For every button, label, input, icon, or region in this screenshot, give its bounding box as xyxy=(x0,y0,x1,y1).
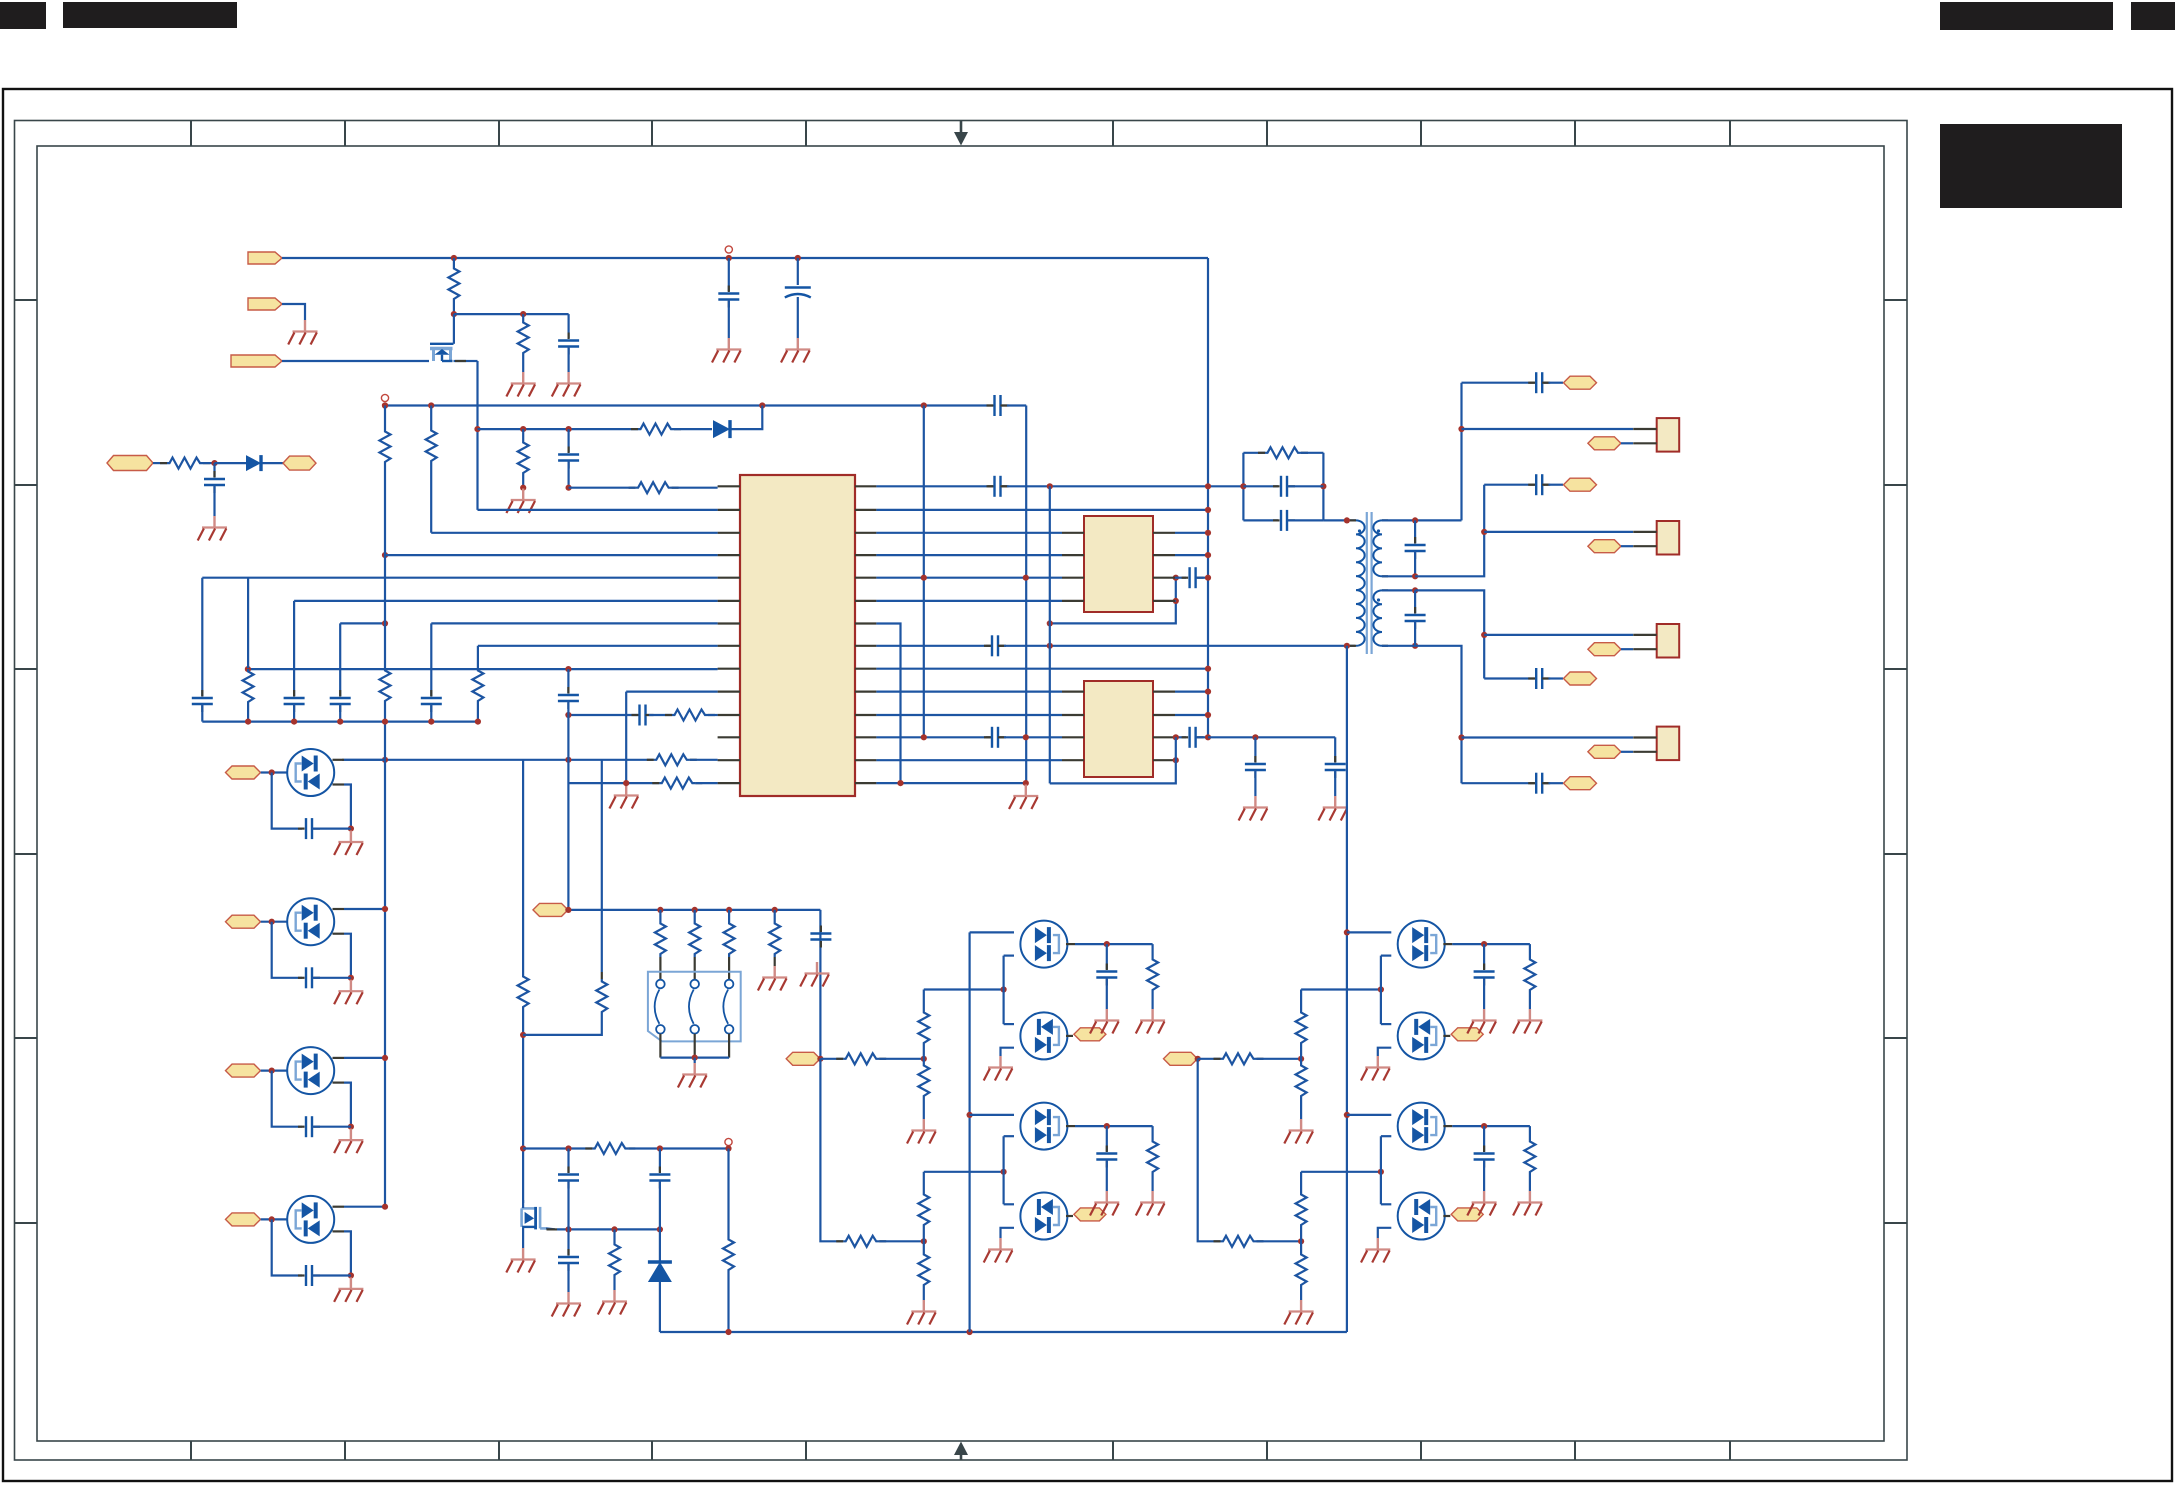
pin xyxy=(986,736,992,738)
pin xyxy=(333,908,345,910)
diode D3 xyxy=(648,1262,672,1282)
junction xyxy=(1298,1238,1304,1244)
frame tick (top) xyxy=(498,121,500,147)
wire xyxy=(1382,589,1415,591)
frame tick (left) xyxy=(15,1037,38,1039)
wire xyxy=(1301,1171,1381,1173)
junction xyxy=(245,666,251,672)
frame tick (top) xyxy=(1729,121,1731,147)
frame tick (bottom) xyxy=(651,1441,653,1460)
junction xyxy=(291,719,297,725)
wire xyxy=(522,314,524,320)
resistor R7 xyxy=(636,482,672,493)
net flag STBY xyxy=(248,298,282,310)
wire xyxy=(1243,519,1278,521)
wire xyxy=(876,577,1062,579)
frame tick (bottom) xyxy=(1266,1441,1268,1460)
pin xyxy=(659,957,661,980)
frame tick (left) xyxy=(15,1222,38,1224)
transistor Q24A xyxy=(1020,921,1067,968)
pin xyxy=(1066,1125,1075,1127)
capacitor C26 xyxy=(1405,545,1426,551)
wire xyxy=(1380,956,1382,1025)
diode D1 xyxy=(246,455,261,471)
resistor R16 xyxy=(596,979,607,1015)
wire xyxy=(523,1015,602,1035)
switch blade xyxy=(723,990,728,1024)
wire xyxy=(1075,1125,1153,1127)
capacitor C4 xyxy=(995,395,1001,416)
wire xyxy=(1175,714,1208,716)
ground xyxy=(984,1238,1013,1263)
transistor Q30C xyxy=(1398,1103,1445,1150)
net flag PWM-A xyxy=(786,1052,820,1065)
resistor R20 xyxy=(769,921,780,957)
pin xyxy=(855,645,876,647)
wire xyxy=(1106,1126,1108,1151)
pin xyxy=(1153,690,1175,692)
wire xyxy=(727,1273,729,1332)
junction xyxy=(451,255,457,261)
wire xyxy=(453,258,455,266)
wire xyxy=(1483,1126,1485,1151)
wire xyxy=(385,554,718,556)
node (open) xyxy=(725,1138,732,1145)
junction xyxy=(1205,530,1211,536)
ground xyxy=(506,372,535,397)
pin xyxy=(1001,404,1008,406)
wire xyxy=(430,464,432,533)
junction xyxy=(565,666,571,672)
wire xyxy=(876,645,986,647)
wire xyxy=(522,1200,524,1208)
wire xyxy=(522,429,524,440)
node (open) xyxy=(725,246,732,253)
wire xyxy=(1462,428,1634,430)
resistor R21 xyxy=(592,1143,628,1154)
pin xyxy=(718,509,740,511)
capacitor C19 xyxy=(992,727,998,748)
pin xyxy=(1153,554,1175,556)
wire xyxy=(567,1181,569,1230)
net flag VIN xyxy=(248,252,282,264)
junction xyxy=(1047,643,1053,649)
wire xyxy=(248,668,718,670)
pin xyxy=(646,714,650,716)
wire xyxy=(1415,646,1461,783)
capacitor C24 xyxy=(1281,476,1287,497)
diode D2 xyxy=(713,420,730,438)
wire xyxy=(1452,1125,1530,1127)
wire xyxy=(923,1288,925,1300)
wire xyxy=(247,578,249,668)
ground xyxy=(678,1063,707,1088)
ground xyxy=(609,784,638,809)
pin xyxy=(333,1081,345,1083)
wire xyxy=(728,300,730,339)
pin xyxy=(1350,519,1356,521)
switch contact xyxy=(656,980,665,989)
wire xyxy=(659,1149,661,1173)
resistor R24c xyxy=(918,1063,929,1099)
wire xyxy=(522,1010,524,1203)
junction xyxy=(566,426,572,432)
wire xyxy=(1175,690,1208,692)
ground xyxy=(907,1119,936,1144)
junction xyxy=(428,719,434,725)
capacitor C14 xyxy=(306,967,312,988)
wire xyxy=(876,624,900,784)
junction xyxy=(817,1056,823,1062)
wire xyxy=(1529,944,1531,957)
pin xyxy=(855,736,876,738)
ground xyxy=(552,372,581,397)
resistor R5 xyxy=(518,440,529,476)
pin xyxy=(1530,382,1536,384)
pin xyxy=(1153,577,1175,579)
pin xyxy=(1542,382,1548,384)
wire xyxy=(1414,590,1416,613)
wire xyxy=(797,297,799,338)
junction xyxy=(565,907,571,913)
wire xyxy=(344,1231,351,1275)
wire xyxy=(202,720,478,722)
frame tick (right) xyxy=(1884,668,1907,670)
resistor R24d xyxy=(843,1236,879,1247)
resistor R3 xyxy=(426,428,437,464)
wire xyxy=(1174,759,1177,761)
capacitor C2 xyxy=(718,294,739,300)
wire xyxy=(970,1114,1014,1116)
junction xyxy=(428,402,434,408)
pin xyxy=(718,645,740,647)
wire xyxy=(282,304,305,320)
switch contact xyxy=(725,980,734,989)
wire xyxy=(312,977,351,979)
wire xyxy=(1621,751,1633,753)
wire xyxy=(625,692,627,784)
net flag VDRV xyxy=(533,903,568,916)
wire xyxy=(924,1171,1004,1173)
wire xyxy=(923,1241,925,1252)
wire xyxy=(1254,770,1256,796)
junction xyxy=(1023,575,1029,581)
wire xyxy=(694,1058,696,1063)
wire xyxy=(1483,1160,1485,1192)
junction xyxy=(1205,689,1211,695)
junction xyxy=(623,780,629,786)
junction xyxy=(759,402,765,408)
pin xyxy=(1350,645,1356,647)
wire xyxy=(1175,532,1208,534)
pin xyxy=(718,532,740,534)
wire xyxy=(567,314,569,338)
pin xyxy=(855,577,876,579)
switch contact xyxy=(690,1025,699,1034)
resistor R30a xyxy=(1221,1053,1257,1064)
net flag RTN4 xyxy=(1588,745,1621,758)
wire xyxy=(876,485,988,487)
junction xyxy=(795,255,801,261)
resistor R4 xyxy=(638,424,674,435)
junction xyxy=(1173,575,1179,581)
wire xyxy=(567,347,569,373)
wire xyxy=(202,577,717,579)
capacitor C22 xyxy=(1245,764,1266,770)
wire xyxy=(1300,1241,1302,1252)
wire xyxy=(430,623,432,696)
capacitor C24a xyxy=(1096,972,1117,978)
frame tick (top) xyxy=(344,121,346,147)
wire xyxy=(1300,1046,1302,1059)
wire xyxy=(1484,484,1530,486)
transformer T1 primary winding xyxy=(1356,520,1365,645)
frame tick (right) xyxy=(1884,853,1907,855)
pin xyxy=(855,600,876,602)
pin xyxy=(1066,1035,1073,1037)
wire xyxy=(1198,1059,1221,1242)
capacitor C30 xyxy=(1536,668,1542,689)
wire xyxy=(1287,485,1323,487)
junction xyxy=(1205,575,1211,581)
junction xyxy=(1412,587,1418,593)
pin xyxy=(988,404,995,406)
wire xyxy=(431,622,717,624)
wire xyxy=(879,1058,924,1060)
transistor TVS4 xyxy=(287,1196,334,1243)
wire xyxy=(613,1278,615,1290)
wire xyxy=(1257,1240,1302,1242)
wire xyxy=(522,760,524,974)
wire xyxy=(728,258,730,291)
junction xyxy=(1205,712,1211,718)
pin xyxy=(855,532,876,534)
capacitor C11 xyxy=(421,698,442,704)
junction xyxy=(269,769,275,775)
junction xyxy=(921,575,927,581)
junction xyxy=(1205,552,1211,558)
wire xyxy=(215,462,247,464)
net flag OUT2 xyxy=(1564,478,1597,491)
wire xyxy=(1549,677,1564,679)
resistor R30d xyxy=(1221,1236,1257,1247)
wire xyxy=(876,736,986,738)
frame tick (right) xyxy=(1884,1037,1907,1039)
wire xyxy=(466,360,478,362)
capacitor C21 xyxy=(1190,727,1196,748)
capacitor C31 xyxy=(1536,773,1542,794)
wire xyxy=(1207,258,1209,737)
net flag RTN2 xyxy=(1588,540,1621,553)
wire xyxy=(1004,1203,1014,1205)
ground xyxy=(506,1248,535,1273)
junction xyxy=(967,1329,973,1335)
frame tick (right) xyxy=(1884,484,1907,486)
wire xyxy=(1529,1126,1531,1139)
frame tick (top) xyxy=(1266,121,1268,147)
wire xyxy=(282,360,429,362)
IC U2 (driver) xyxy=(1084,516,1153,612)
resistor R6 xyxy=(167,458,203,469)
wire xyxy=(153,462,167,464)
junction xyxy=(1481,632,1487,638)
wire xyxy=(1621,545,1633,547)
resistor R12b xyxy=(380,429,391,465)
wire xyxy=(339,623,341,696)
resistor R2 xyxy=(518,320,529,356)
wire xyxy=(272,922,302,978)
pin xyxy=(855,622,876,624)
frame tick (bottom) xyxy=(498,1441,500,1460)
black block (page header right 1) xyxy=(1940,2,2113,30)
wire xyxy=(568,782,659,784)
pin xyxy=(333,783,345,785)
pin xyxy=(1530,677,1536,679)
pin xyxy=(1153,532,1175,534)
frame tick (left) xyxy=(15,484,38,486)
wire xyxy=(970,931,1014,933)
junction xyxy=(921,734,927,740)
wire xyxy=(1549,484,1564,486)
wire xyxy=(431,532,717,534)
wire xyxy=(876,690,1062,692)
junction xyxy=(1378,1169,1384,1175)
junction xyxy=(451,311,457,317)
transistor TVS2 xyxy=(287,898,334,945)
wire xyxy=(567,429,569,452)
wire xyxy=(1301,988,1381,990)
pin xyxy=(1382,519,1388,521)
resistor R30c xyxy=(1296,1063,1307,1099)
junction xyxy=(520,426,526,432)
capacitor C25 xyxy=(1281,510,1287,531)
wire xyxy=(478,509,718,511)
wire xyxy=(1415,485,1484,577)
wire xyxy=(1382,645,1415,647)
junction xyxy=(1481,529,1487,535)
junction xyxy=(348,975,354,981)
frame tick (top) xyxy=(1420,121,1422,147)
wire xyxy=(1549,382,1564,384)
wire xyxy=(1381,954,1391,956)
junction xyxy=(382,620,388,626)
switch blade xyxy=(689,990,694,1024)
wire xyxy=(384,704,386,1207)
wire xyxy=(247,705,249,722)
pin xyxy=(855,485,876,487)
wire xyxy=(1483,978,1485,1010)
wire xyxy=(1381,1023,1391,1025)
resistor R17 xyxy=(655,921,666,957)
ground xyxy=(1467,1009,1496,1034)
switch contact xyxy=(725,1025,734,1034)
pin xyxy=(718,690,740,692)
wire xyxy=(1050,737,1176,783)
wire xyxy=(924,988,1004,990)
capacitor C30b xyxy=(1474,1154,1495,1160)
wire xyxy=(1196,736,1208,738)
pin xyxy=(333,1206,345,1208)
resistor R22 xyxy=(609,1242,620,1278)
resistor R24f xyxy=(918,1252,929,1288)
wire xyxy=(876,668,1208,670)
wire xyxy=(263,462,284,464)
wire xyxy=(968,932,970,1332)
junction xyxy=(921,1056,927,1062)
net flag OUT3 xyxy=(1564,672,1597,685)
pin xyxy=(1542,484,1548,486)
junction xyxy=(348,1124,354,1130)
capacitor C29 xyxy=(1405,615,1426,621)
junction xyxy=(1298,1056,1304,1062)
pin xyxy=(1066,943,1075,945)
wire xyxy=(261,921,288,923)
wire xyxy=(430,704,432,722)
sheet inner border xyxy=(37,146,1884,1441)
frame tick (bottom) xyxy=(344,1441,346,1460)
wire xyxy=(478,428,639,430)
connector J3 xyxy=(1633,624,1679,658)
wire xyxy=(1415,590,1484,678)
pin xyxy=(1062,577,1084,579)
junction xyxy=(1205,507,1211,513)
pin xyxy=(855,554,876,556)
wire xyxy=(876,532,1062,534)
junction xyxy=(1412,573,1418,579)
wire xyxy=(1484,531,1633,533)
ground xyxy=(1239,796,1268,821)
resistor R24e xyxy=(918,1192,929,1228)
wire xyxy=(1621,648,1633,650)
wire xyxy=(1106,978,1108,1010)
wire xyxy=(344,785,351,829)
wire xyxy=(923,406,925,738)
frame tick (bottom) xyxy=(1574,1441,1576,1460)
resistor R18 xyxy=(689,921,700,957)
resistor R13 xyxy=(472,668,483,704)
wire xyxy=(613,1229,615,1242)
transistor Q30D xyxy=(1398,1193,1445,1240)
wire xyxy=(567,461,569,488)
junction xyxy=(1195,1056,1201,1062)
ground xyxy=(1090,1191,1119,1216)
junction xyxy=(1205,734,1211,740)
junction xyxy=(1378,986,1384,992)
resistor R30g xyxy=(1524,957,1535,993)
net flag AC-OK xyxy=(283,456,316,470)
wire xyxy=(344,759,385,761)
junction xyxy=(382,1204,388,1210)
wire xyxy=(732,406,763,430)
pin xyxy=(774,957,776,966)
resistor R23 xyxy=(723,1237,734,1273)
resistor R24g xyxy=(1147,957,1158,993)
wire xyxy=(1257,1058,1302,1060)
pin xyxy=(1153,736,1175,738)
ground xyxy=(1009,785,1038,810)
pin xyxy=(728,957,730,980)
wire xyxy=(1382,575,1415,577)
wire xyxy=(1243,485,1278,487)
junction xyxy=(520,485,526,491)
pin xyxy=(1062,759,1084,761)
wire xyxy=(1287,519,1323,521)
node (open) xyxy=(381,394,388,401)
junction xyxy=(520,1145,526,1151)
wire xyxy=(876,554,1062,556)
net flag SW-B1 xyxy=(1451,1028,1483,1041)
wire xyxy=(1347,1114,1391,1116)
